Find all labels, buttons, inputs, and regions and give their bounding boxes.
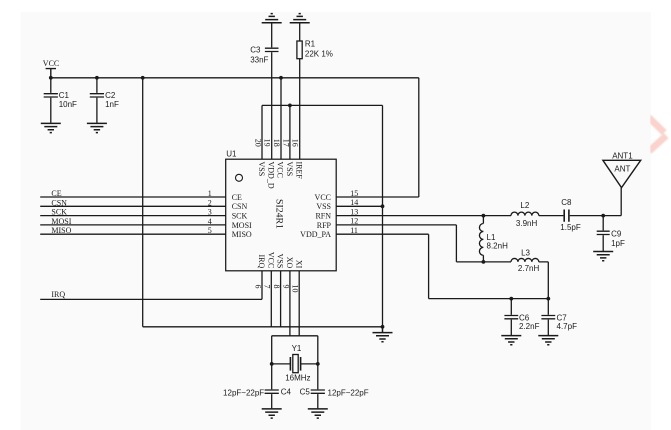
inductor L1 (479, 216, 508, 262)
capacitor C9 (597, 216, 625, 251)
svg-text:1.5pF: 1.5pF (560, 223, 581, 232)
ground (C4) (262, 409, 282, 418)
svg-text:SI24R1: SI24R1 (274, 199, 285, 229)
crystal Y1 frame wires (272, 336, 318, 364)
svg-text:C8: C8 (561, 198, 572, 207)
inductor L3 (511, 248, 539, 273)
svg-text:1: 1 (208, 189, 212, 198)
svg-text:ANT1: ANT1 (612, 152, 633, 161)
svg-text:VCC: VCC (315, 193, 331, 202)
svg-text:9: 9 (281, 285, 290, 289)
wire pin 7 VCC down (270, 271, 272, 327)
wire L2 to C8 (539, 215, 564, 217)
wire bottom rail (pin7 VCC / pin8 VSS row) (143, 326, 383, 328)
node IRQ wire (40, 271, 262, 300)
svg-text:VCC: VCC (43, 59, 59, 68)
wire pin 10 XI down (298, 271, 300, 336)
svg-text:8.2nH: 8.2nH (487, 242, 509, 251)
wire pin 9 XO down (289, 271, 291, 336)
svg-text:SCK: SCK (51, 208, 67, 217)
svg-text:19: 19 (263, 139, 272, 147)
wire pin 11 VDD_PA elbow (336, 234, 548, 298)
svg-text:4: 4 (208, 217, 212, 226)
junction VSS/bottom rail (381, 325, 385, 329)
antenna ANT1 (603, 152, 641, 188)
svg-text:5: 5 (208, 226, 212, 235)
power symbol VCC (43, 59, 59, 78)
capacitor C5 (300, 364, 369, 409)
svg-text:VCC: VCC (266, 252, 275, 268)
wire pin 12 RFP elbow (336, 225, 511, 262)
svg-text:2.7nH: 2.7nH (518, 264, 540, 273)
svg-text:7: 7 (263, 285, 272, 289)
node MOSI wire (40, 217, 226, 226)
IC U1 SI24R1 body (226, 150, 337, 271)
svg-text:U1: U1 (226, 150, 237, 159)
svg-text:MISO: MISO (51, 226, 71, 235)
svg-text:L3: L3 (521, 248, 530, 257)
ground (top, R1) inverted (290, 14, 310, 23)
svg-text:CSN: CSN (51, 198, 67, 207)
svg-text:33nF: 33nF (250, 56, 268, 65)
svg-text:C3: C3 (250, 46, 261, 55)
junction VCC/C1 (49, 76, 53, 80)
svg-text:4.7pF: 4.7pF (557, 322, 578, 331)
U1 right pin numbers 15-11 (350, 189, 358, 235)
svg-text:MISO: MISO (232, 230, 252, 239)
svg-text:IRQ: IRQ (51, 290, 65, 299)
svg-text:CE: CE (51, 189, 61, 198)
svg-text:MOSI: MOSI (51, 217, 71, 226)
junction VDD_PA/C7 (546, 297, 550, 301)
svg-text:IRQ: IRQ (257, 255, 266, 269)
junction VSS/pin17 (288, 104, 292, 108)
svg-text:ANT: ANT (614, 164, 630, 173)
ground (C9) (593, 252, 613, 261)
svg-text:VSS: VSS (257, 162, 266, 177)
wire pin 20 VSS up (261, 105, 263, 159)
ground (C5) (308, 409, 328, 418)
svg-text:VSS: VSS (285, 162, 294, 177)
wire VSS top run (262, 104, 383, 106)
svg-text:16: 16 (291, 139, 300, 147)
svg-text:12pF~22pF: 12pF~22pF (223, 388, 264, 397)
resistor R1 (297, 23, 333, 59)
wire C3 to pin 19 VDD_D (271, 52, 273, 159)
junction VSS/pin14 (381, 204, 385, 208)
inductor L2 (511, 201, 539, 228)
svg-text:MOSI: MOSI (232, 221, 252, 230)
node MISO wire (40, 226, 226, 235)
svg-text:12pF~22pF: 12pF~22pF (328, 388, 369, 397)
node SCK wire (40, 208, 226, 217)
capacitor C1 (44, 78, 77, 123)
junction RFP/L1/L3 (482, 260, 486, 264)
svg-text:VCC: VCC (276, 162, 285, 178)
U1 right pin names (300, 193, 331, 239)
wire pin 13 RFN right to L2 (336, 215, 511, 217)
svg-text:6: 6 (253, 285, 262, 289)
svg-text:10nF: 10nF (59, 100, 77, 109)
svg-text:R1: R1 (305, 40, 316, 49)
svg-text:1pF: 1pF (611, 239, 625, 248)
U1 bottom pin numbers 6-10 (253, 285, 299, 293)
capacitor C7 (541, 299, 577, 336)
svg-text:IREF: IREF (294, 162, 303, 180)
svg-text:8: 8 (272, 285, 281, 289)
svg-text:3: 3 (208, 208, 212, 217)
capacitor C2 (90, 78, 119, 123)
svg-text:20: 20 (253, 139, 262, 147)
junction Y1 left (270, 362, 274, 366)
wire VCC rail (51, 77, 419, 79)
svg-text:CSN: CSN (232, 202, 248, 211)
svg-text:VDD_D: VDD_D (266, 162, 275, 189)
junction VCC/feed drop (141, 76, 145, 80)
node CSN wire (40, 198, 226, 207)
U1 left pin numbers 1-5 (208, 189, 212, 235)
junction Y1 right (316, 362, 320, 366)
svg-text:C1: C1 (59, 91, 70, 100)
capacitor C3 (250, 23, 278, 65)
wire R1 to pin 16 IREF (299, 59, 301, 160)
svg-text:XO: XO (285, 257, 294, 269)
wire pin 8 VSS down (280, 271, 282, 327)
wire pin 14 VSS right (336, 205, 382, 207)
svg-text:VDD_PA: VDD_PA (300, 230, 331, 239)
U1 top pin names (257, 162, 303, 189)
junction VDD_PA/C6 (509, 297, 513, 301)
svg-text:18: 18 (272, 139, 281, 147)
capacitor C4 (223, 364, 291, 409)
ground (C6) (501, 336, 521, 345)
svg-text:XI: XI (294, 260, 303, 269)
junction VCC/pin18 (279, 76, 283, 80)
junction C9 tap (601, 214, 605, 218)
ground (top, C3) inverted (262, 14, 282, 23)
U1 left pin names (232, 193, 252, 239)
svg-text:2.2nF: 2.2nF (519, 322, 540, 331)
svg-text:1nF: 1nF (105, 100, 119, 109)
ground (C7) (538, 336, 558, 345)
svg-text:VSS: VSS (316, 202, 331, 211)
svg-text:Y1: Y1 (292, 344, 302, 353)
svg-text:10: 10 (291, 285, 300, 293)
wire VCC feed drop to bottom rail (142, 78, 144, 327)
svg-text:VSS: VSS (276, 254, 285, 269)
ground (C1) (41, 123, 61, 132)
junction RFN/L1 (482, 214, 486, 218)
U1 top pin numbers 20-16 (253, 139, 299, 147)
svg-text:RFN: RFN (315, 212, 331, 221)
wire pin 15 VCC right (336, 196, 419, 198)
svg-text:2: 2 (208, 198, 212, 207)
wire VCC rail right drop to pin 15 (418, 78, 420, 197)
svg-text:22K 1%: 22K 1% (305, 49, 333, 58)
svg-text:L2: L2 (520, 201, 529, 210)
svg-text:C4: C4 (281, 388, 292, 397)
capacitor C6 (504, 299, 539, 336)
crystal Y1 (285, 344, 310, 383)
node CE wire (40, 189, 226, 198)
svg-text:C5: C5 (300, 388, 311, 397)
svg-text:SCK: SCK (232, 212, 248, 221)
ground (C2) (87, 123, 107, 132)
wire pin 18 VCC up to rail (280, 78, 282, 159)
svg-text:CE: CE (232, 193, 242, 202)
svg-text:RFP: RFP (317, 221, 332, 230)
svg-text:C2: C2 (105, 91, 116, 100)
wire C8 to antenna (570, 188, 622, 216)
svg-text:C9: C9 (611, 230, 622, 239)
ground (VSS below IC) (373, 327, 393, 342)
wire L3 right elbow down (539, 262, 549, 299)
svg-text:3.9nH: 3.9nH (516, 219, 538, 228)
wire VSS right drop to ground (382, 105, 384, 326)
U1 bottom pin names (257, 252, 303, 269)
junction VCC/C2 (95, 76, 99, 80)
svg-text:17: 17 (281, 139, 290, 147)
svg-text:16MHz: 16MHz (285, 374, 310, 383)
wire pin 17 VSS up (289, 105, 291, 159)
capacitor C8 (560, 198, 581, 232)
